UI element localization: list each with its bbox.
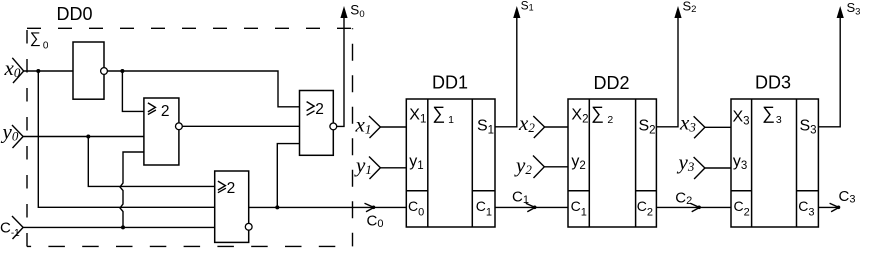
svg-text:S1: S1 — [521, 0, 534, 13]
svg-text:DD2: DD2 — [594, 73, 630, 93]
svg-text:2: 2 — [315, 101, 324, 118]
svg-text:DD0: DD0 — [57, 4, 93, 24]
svg-text:DD3: DD3 — [755, 73, 791, 93]
svg-text:2: 2 — [161, 103, 170, 120]
svg-text:2: 2 — [227, 180, 236, 197]
svg-text:DD1: DD1 — [432, 73, 468, 93]
